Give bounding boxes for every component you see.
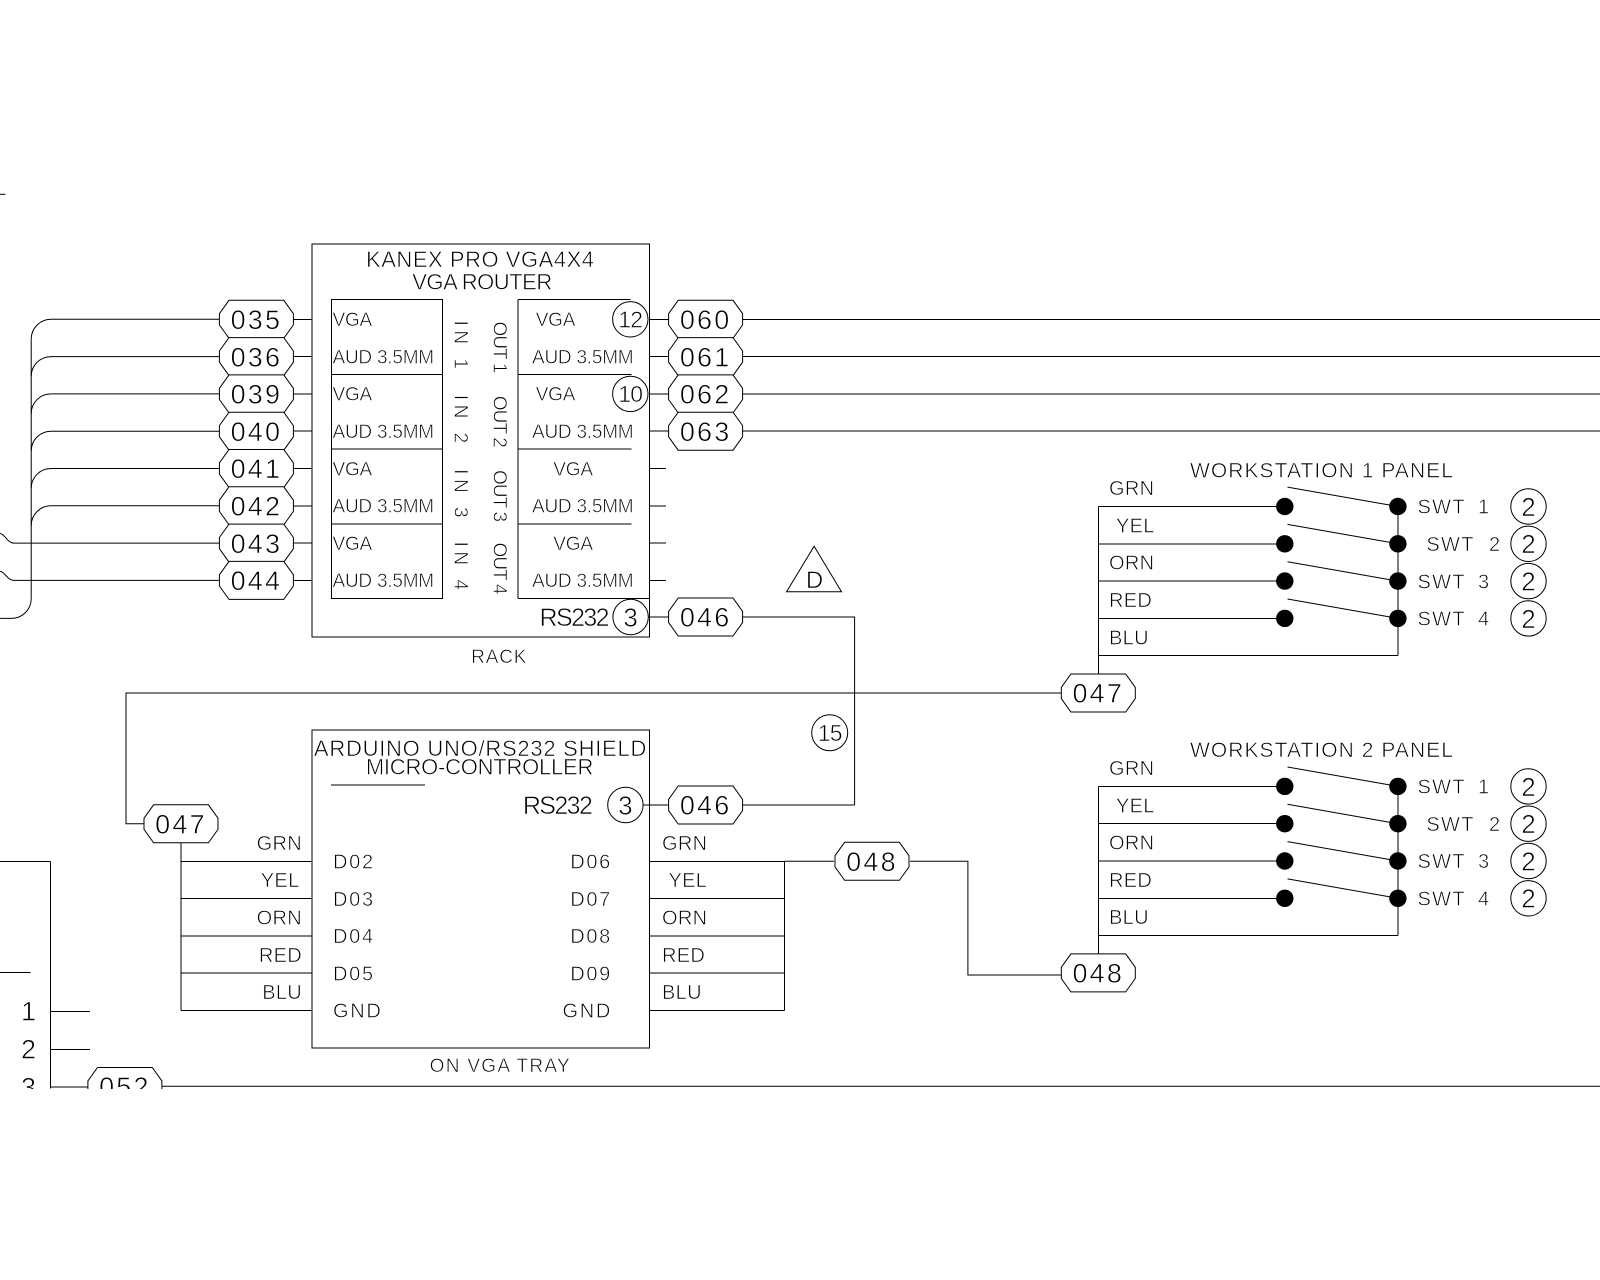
svg-text:GRN: GRN: [1109, 758, 1154, 780]
svg-text:2: 2: [1521, 567, 1535, 597]
svg-text:RED: RED: [662, 945, 705, 967]
wire from 052 to right edge: [162, 1085, 1600, 1087]
svg-text:YEL: YEL: [669, 870, 708, 892]
svg-text:D04: D04: [333, 926, 375, 948]
panel 2 qty circle 4: [1511, 881, 1546, 916]
stub into IN row 8: [294, 579, 312, 581]
svg-text:VGA: VGA: [553, 459, 593, 480]
wire to 041 with corner arc: [31, 469, 219, 489]
clipped box partial line: [0, 972, 31, 974]
panel 1 qty circle 1: [1511, 489, 1546, 524]
left table left edge: [180, 861, 182, 1010]
svg-text:SWT: SWT: [1418, 889, 1466, 911]
svg-text:040: 040: [231, 417, 283, 447]
svg-text:D06: D06: [570, 852, 612, 874]
svg-text:YEL: YEL: [1116, 795, 1155, 817]
svg-text:3: 3: [1478, 851, 1489, 873]
svg-text:VGA: VGA: [536, 385, 576, 406]
panel 2 qty circle 1: [1511, 769, 1546, 804]
svg-text:2: 2: [1521, 846, 1535, 876]
svg-text:12: 12: [618, 307, 642, 333]
stub into IN row 6: [294, 505, 312, 507]
svg-text:VGA ROUTER: VGA ROUTER: [412, 269, 552, 294]
wire tag 061: [669, 338, 743, 376]
panel 2 wire row 4: [1099, 897, 1285, 899]
svg-text:043: 043: [231, 529, 283, 559]
wire 046 arduino to vertical: [743, 804, 855, 806]
svg-text:IN 2: IN 2: [450, 395, 471, 448]
svg-text:D08: D08: [570, 926, 612, 948]
panel 1 drop to tag: [1098, 656, 1100, 674]
panel 1 wire row 3: [1099, 580, 1285, 582]
svg-text:035: 035: [231, 305, 283, 335]
panel 1 switch SWT 2: [1276, 535, 1293, 552]
svg-text:AUD 3.5MM: AUD 3.5MM: [532, 497, 633, 518]
svg-text:046: 046: [680, 603, 732, 633]
stub out of OUT row 4: [649, 430, 668, 432]
panel 2 left edge: [1098, 786, 1100, 935]
wire to 042 with corner arc: [31, 506, 219, 526]
svg-text:AUD 3.5MM: AUD 3.5MM: [333, 497, 434, 518]
svg-text:IN 4: IN 4: [450, 542, 471, 595]
wire tag 062: [669, 375, 743, 413]
wire from 060 to right edge: [743, 318, 1600, 320]
svg-text:VGA: VGA: [553, 534, 593, 555]
KANEX left inner box (inputs): [332, 300, 443, 599]
panel 1 wire row 4: [1099, 617, 1285, 619]
svg-text:060: 060: [680, 305, 732, 335]
short stub OUT row 6: [649, 505, 666, 507]
wire tag 048 left: [835, 842, 909, 880]
svg-text:2: 2: [1521, 529, 1535, 559]
divider OUT3/OUT4: [518, 523, 632, 525]
svg-text:062: 062: [680, 380, 732, 410]
svg-text:D09: D09: [570, 963, 612, 985]
wire tag 040: [219, 412, 293, 450]
panel 2 qty circle 2: [1511, 806, 1546, 841]
divider OUT2/OUT3: [518, 448, 632, 450]
stub 047 tag to left table: [180, 843, 182, 862]
svg-text:3: 3: [1478, 571, 1489, 593]
svg-text:2: 2: [21, 1035, 36, 1065]
right table line 5: [649, 1010, 784, 1012]
svg-text:SWT: SWT: [1418, 497, 1466, 519]
panel 1 qty circle 2: [1511, 526, 1546, 561]
svg-text:IN 3: IN 3: [450, 469, 471, 522]
left table line 3: [181, 935, 312, 937]
svg-text:BLU: BLU: [1109, 907, 1149, 929]
svg-text:VGA: VGA: [333, 534, 373, 555]
svg-text:OUT 3: OUT 3: [489, 470, 510, 521]
short stub OUT row 8: [649, 579, 666, 581]
svg-text:GRN: GRN: [662, 833, 707, 855]
wire vertical bundle at left: [30, 339, 32, 598]
panel 2 switch common vertical: [1397, 786, 1399, 935]
pin 3 stub: [50, 1086, 90, 1088]
pin 1 stub: [50, 1011, 90, 1013]
svg-text:ON VGA TRAY: ON VGA TRAY: [430, 1056, 571, 1077]
left table line 4: [181, 972, 312, 974]
panel 2 switch SWT 3: [1276, 852, 1293, 869]
panel 2 wire row 1: [1099, 785, 1285, 787]
svg-text:ORN: ORN: [257, 908, 302, 930]
wire tag 047 arduino: [144, 805, 218, 843]
svg-text:WORKSTATION 1 PANEL: WORKSTATION 1 PANEL: [1190, 459, 1454, 482]
panel 1 qty circle 3: [1511, 563, 1546, 598]
circled pin 3 router: [613, 599, 648, 634]
wire to 044 from left edge: [0, 571, 219, 580]
svg-text:2: 2: [1521, 809, 1535, 839]
wire from 061 to right edge: [743, 356, 1600, 358]
svg-text:1: 1: [1478, 497, 1489, 519]
svg-text:SWT: SWT: [1418, 609, 1466, 631]
svg-text:RS232: RS232: [523, 792, 592, 820]
svg-text:GND: GND: [333, 1001, 383, 1023]
svg-text:RED: RED: [1109, 590, 1152, 612]
right table right edge: [784, 861, 786, 1010]
svg-text:OUT 4: OUT 4: [489, 542, 510, 594]
short stub OUT row 5: [649, 468, 666, 470]
short stub OUT row 7: [649, 542, 666, 544]
stub out of OUT row 1: [649, 318, 668, 320]
wire to 043 from left edge: [0, 534, 219, 544]
svg-text:AUD 3.5MM: AUD 3.5MM: [333, 422, 434, 443]
wire tag 036: [219, 338, 293, 376]
svg-text:2: 2: [1521, 604, 1535, 634]
svg-text:KANEX PRO VGA4X4: KANEX PRO VGA4X4: [366, 247, 595, 272]
svg-text:ORN: ORN: [1109, 553, 1154, 575]
panel 1 wire row 1: [1099, 506, 1285, 508]
svg-text:15: 15: [818, 720, 842, 746]
stub into IN row 3: [294, 393, 312, 395]
panel 2 switch SWT 4: [1276, 890, 1293, 907]
wire linking 047 tags: [126, 693, 1061, 824]
stub RS232 to 046: [648, 616, 669, 618]
right box bottom edge: [518, 598, 649, 600]
wire to 035 with corner arc: [31, 319, 219, 339]
svg-text:VGA: VGA: [333, 310, 373, 331]
panel 1 left edge: [1098, 507, 1100, 656]
svg-text:4: 4: [1478, 889, 1489, 911]
wire 046 router to vertical: [743, 617, 855, 805]
svg-text:041: 041: [231, 454, 283, 484]
svg-text:046: 046: [680, 791, 732, 821]
svg-text:BLU: BLU: [262, 982, 302, 1004]
svg-text:2: 2: [1489, 814, 1500, 836]
wire tag 042: [219, 487, 293, 525]
svg-text:3: 3: [623, 602, 637, 632]
circled wire number 15: [812, 715, 848, 751]
bottom clip mask: [0, 1089, 1600, 1280]
svg-text:2: 2: [1521, 492, 1535, 522]
wire tag 044: [219, 561, 293, 599]
svg-text:047: 047: [155, 810, 207, 840]
svg-text:IN 1: IN 1: [450, 321, 471, 374]
panel 1 switch common vertical: [1397, 507, 1399, 656]
right table line 1: [649, 860, 784, 862]
panel 1 switch SWT 4: [1276, 610, 1293, 627]
wire tag 063: [669, 412, 743, 450]
svg-text:061: 061: [680, 342, 732, 372]
panel 1 switch SWT 1: [1276, 498, 1293, 515]
svg-text:ORN: ORN: [662, 908, 707, 930]
svg-text:YEL: YEL: [261, 870, 300, 892]
divider IN2/IN3: [332, 448, 443, 450]
KANEX VGA router outer box: [312, 244, 650, 637]
svg-text:AUD 3.5MM: AUD 3.5MM: [333, 571, 434, 592]
right box left edge: [517, 300, 519, 599]
wire tag 052: [88, 1068, 162, 1106]
divider IN1/IN2: [332, 373, 443, 375]
svg-text:BLU: BLU: [1109, 627, 1149, 649]
panel 1 switch SWT 3: [1276, 572, 1293, 589]
svg-text:OUT 2: OUT 2: [489, 396, 510, 447]
svg-text:1: 1: [1478, 777, 1489, 799]
svg-text:4: 4: [1478, 609, 1489, 631]
svg-text:D05: D05: [333, 963, 375, 985]
wire 048 from arduino table: [785, 860, 834, 862]
divider OUT1/OUT2: [518, 373, 632, 375]
svg-text:AUD 3.5MM: AUD 3.5MM: [532, 347, 633, 368]
wire bundle exit arc bottom left: [0, 599, 31, 619]
svg-text:SWT: SWT: [1418, 571, 1466, 593]
blank underline in arduino box: [331, 784, 425, 786]
divider IN3/IN4: [332, 523, 443, 525]
svg-text:044: 044: [231, 566, 283, 596]
wire tag 060: [669, 300, 743, 338]
svg-text:D07: D07: [570, 889, 612, 911]
svg-text:RS232: RS232: [540, 604, 609, 632]
svg-text:GRN: GRN: [257, 833, 302, 855]
stub into IN row 7: [294, 542, 312, 544]
panel 2 qty circle 3: [1511, 843, 1546, 878]
svg-text:D02: D02: [333, 852, 375, 874]
right table line 4: [649, 972, 784, 974]
svg-text:042: 042: [231, 492, 283, 522]
left table line 1: [181, 860, 312, 862]
circled pin 3 arduino: [608, 787, 643, 822]
svg-text:SWT: SWT: [1418, 777, 1466, 799]
stub into IN row 5: [294, 468, 312, 470]
svg-text:2: 2: [1521, 772, 1535, 802]
Arduino micro-controller box: [312, 730, 650, 1048]
svg-text:AUD 3.5MM: AUD 3.5MM: [333, 347, 434, 368]
svg-text:RED: RED: [1109, 870, 1152, 892]
panel 2 switch SWT 2: [1276, 815, 1293, 832]
svg-text:2: 2: [1521, 884, 1535, 914]
svg-text:WORKSTATION 2 PANEL: WORKSTATION 2 PANEL: [1190, 739, 1454, 762]
svg-text:GRN: GRN: [1109, 478, 1154, 500]
svg-text:ORN: ORN: [1109, 833, 1154, 855]
wire tag 039: [219, 375, 293, 413]
svg-text:SWT: SWT: [1426, 814, 1474, 836]
wire from 062 to right edge: [743, 393, 1600, 395]
wire tag 043: [219, 524, 293, 562]
wire to 036 with corner arc: [31, 357, 219, 377]
svg-text:GND: GND: [562, 1001, 612, 1023]
svg-text:AUD 3.5MM: AUD 3.5MM: [532, 422, 633, 443]
svg-text:SWT: SWT: [1426, 534, 1474, 556]
svg-text:063: 063: [680, 417, 732, 447]
circled pin 12: [613, 302, 648, 337]
svg-text:SWT: SWT: [1418, 851, 1466, 873]
left table line 5: [181, 1010, 312, 1012]
stub out of OUT row 3: [649, 393, 668, 395]
clipped box right edge: [49, 861, 51, 1088]
svg-text:OUT 1: OUT 1: [489, 321, 510, 372]
svg-text:BLU: BLU: [662, 982, 702, 1004]
svg-text:10: 10: [618, 381, 642, 407]
wire tag 041: [219, 450, 293, 488]
svg-text:VGA: VGA: [333, 385, 373, 406]
panel 1 wire row 2: [1099, 543, 1285, 545]
revision triangle D: [787, 546, 842, 592]
svg-text:036: 036: [231, 342, 283, 372]
stub out of OUT row 2: [649, 356, 668, 358]
wire tag 046 arduino: [669, 786, 743, 824]
left table line 2: [181, 898, 312, 900]
wire from 063 to right edge: [743, 430, 1600, 432]
svg-text:1: 1: [21, 997, 36, 1027]
pin 2 stub: [50, 1048, 90, 1050]
svg-text:048: 048: [1072, 959, 1124, 989]
wire tag 047 panel 1: [1061, 674, 1135, 712]
svg-text:AUD 3.5MM: AUD 3.5MM: [532, 571, 633, 592]
svg-text:2: 2: [1489, 534, 1500, 556]
stub into IN row 4: [294, 430, 312, 432]
svg-text:VGA: VGA: [536, 310, 576, 331]
wire tag 048 panel 2: [1061, 954, 1135, 992]
right box top edge: [518, 299, 631, 301]
svg-text:VGA: VGA: [333, 459, 373, 480]
right table line 2: [649, 898, 784, 900]
circled pin 10: [613, 376, 648, 411]
panel 2 wire row 3: [1099, 860, 1285, 862]
svg-text:RED: RED: [259, 945, 302, 967]
wire stub at left edge: [0, 193, 6, 195]
stub into IN row 1: [294, 318, 312, 320]
panel 2 wire row 2: [1099, 823, 1285, 825]
clipped box top line: [0, 860, 50, 862]
wire tag 046 router: [669, 598, 743, 636]
wire tag 035: [219, 300, 293, 338]
panel 1 qty circle 4: [1511, 601, 1546, 636]
svg-text:D: D: [806, 567, 823, 594]
svg-text:048: 048: [846, 847, 898, 877]
panel 2 drop to tag: [1098, 936, 1100, 954]
svg-text:RACK: RACK: [471, 647, 527, 668]
stub arduino RS232 to 046: [643, 804, 669, 806]
wire to 039 with corner arc: [31, 394, 219, 414]
wire 048 routing: [910, 861, 1061, 975]
svg-text:039: 039: [231, 380, 283, 410]
svg-text:MICRO-CONTROLLER: MICRO-CONTROLLER: [366, 755, 593, 780]
svg-text:3: 3: [618, 790, 632, 820]
stub into IN row 2: [294, 356, 312, 358]
svg-text:047: 047: [1072, 679, 1124, 709]
panel 2 switch SWT 1: [1276, 778, 1293, 795]
svg-text:YEL: YEL: [1116, 515, 1155, 537]
right table line 3: [649, 935, 784, 937]
svg-text:D03: D03: [333, 889, 375, 911]
panel 2 bottom return wire: [1099, 935, 1398, 937]
panel 1 bottom return wire: [1099, 655, 1398, 657]
wire to 040 with corner arc: [31, 431, 219, 451]
